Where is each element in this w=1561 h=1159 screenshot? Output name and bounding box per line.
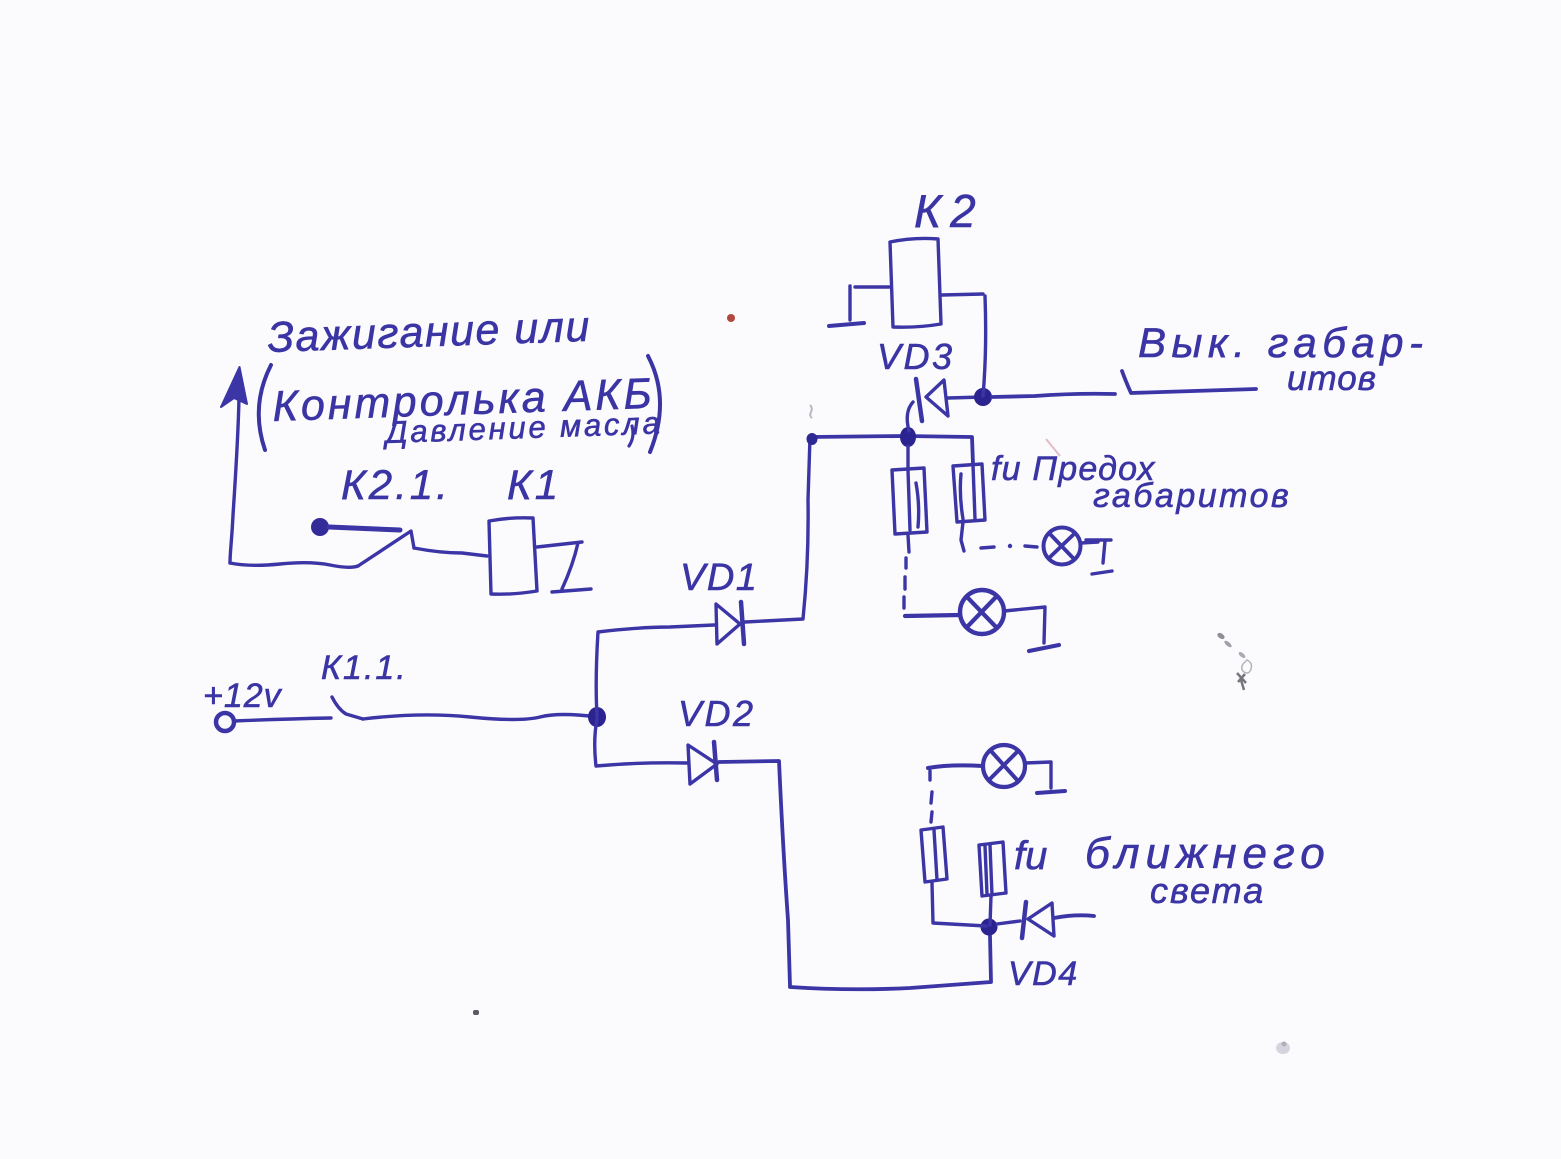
fuse FU3 (blizhnego sveta, right) (979, 842, 1006, 896)
diode VD4 cathode bar (1022, 902, 1026, 938)
wire: lamp HL1 to ground (1081, 542, 1098, 543)
K2 left stub vertical (848, 286, 851, 320)
dash-dot wire to lamp HL1 (981, 546, 1037, 548)
relay coil K2 (890, 238, 941, 327)
fuse FU2 (blizhnego sveta, left) (921, 827, 947, 882)
lamp HL3 circle (983, 745, 1025, 787)
big opening parenthesis (259, 365, 271, 450)
K2 right stub (942, 294, 983, 295)
wire: dashes to lamp HL3 (928, 765, 983, 768)
wire: node B right to VD4 (997, 921, 1020, 924)
switch K2.1 fixed stub (329, 527, 400, 530)
wire: bottom horizontal from arrow corner to switch K2.1 (230, 563, 358, 568)
wire: VD3 to node D (948, 397, 983, 398)
wire: arrow to ignition, vertical shaft with arrowhead (230, 371, 239, 563)
big closing parenthesis (648, 356, 660, 452)
wire: lamp HL2 to ground (1004, 607, 1045, 643)
fuse FU4 inner stroke (960, 465, 975, 519)
wire: node C down into fuse FU1 (906, 446, 909, 468)
wire: +12v to switch K1.1 (234, 718, 331, 721)
gabarity rail (lower) (810, 436, 973, 464)
comma after АКБ (629, 426, 633, 446)
faint gray squiggle near rail (810, 405, 812, 418)
diode VD4 triangle (1028, 903, 1054, 936)
lamp HL2 cross (968, 598, 996, 627)
node B junction dot (981, 919, 998, 936)
diode VD2 triangle (688, 745, 717, 784)
node D junction dot (974, 388, 992, 406)
fuse FU2 inner stroke (934, 830, 937, 880)
+12v terminal circle (216, 713, 234, 731)
red speck (727, 314, 735, 322)
wire: switch K2.1 to relay coil R1 (414, 548, 487, 556)
svg-text:габаритов: габаритов (1093, 477, 1291, 515)
wire below FU4 (961, 522, 964, 551)
wire: lamp HL3 to ground (1025, 762, 1051, 788)
ground bar of HL3 (1037, 791, 1065, 793)
svg-text:К2.1.: К2.1. (341, 461, 451, 508)
bracket lead to gabarity switch (1122, 371, 1256, 393)
node C junction blob (900, 427, 916, 447)
ground of HL1 (1086, 540, 1112, 574)
wire below FU1 (908, 535, 909, 552)
svg-text:VD4: VD4 (1008, 955, 1079, 993)
svg-text:итов: итов (1287, 359, 1377, 398)
diode VD3 triangle (926, 380, 948, 416)
K2 left stub wire (855, 285, 889, 288)
diode VD1 triangle (716, 604, 740, 644)
wire: node D up to relay K2 (983, 296, 986, 396)
wire: VD4 right lead (1054, 915, 1094, 918)
wire: VD2 right then down to bottom rail (719, 761, 790, 986)
wire: node A down to VD2 (595, 719, 688, 766)
svg-text:fu: fu (1014, 834, 1047, 878)
svg-text:VD1: VD1 (680, 557, 758, 599)
fuse FU4 (gabarity, right) (953, 464, 985, 522)
svg-text:К2: К2 (914, 185, 985, 237)
dashed wire below FU1 (904, 558, 906, 608)
diode VD3 cathode bar (916, 379, 922, 421)
K2 left chassis bar (829, 323, 864, 326)
dashed wire above FU2 (930, 771, 932, 822)
wire: VD1 cathode right then up to gabarity rail (745, 437, 810, 622)
diode VD2 cathode bar (714, 742, 717, 780)
svg-text:+12v: +12v (203, 677, 283, 715)
wire: node C up to VD3 anode (907, 402, 913, 431)
wire: dashes to lamp HL2 (905, 615, 960, 616)
lamp HL2 circle (960, 590, 1004, 634)
svg-text:К1: К1 (507, 461, 561, 508)
svg-text:VD2: VD2 (678, 693, 756, 734)
switch K2.1 contact dot (311, 518, 329, 536)
lamp HL1 circle (1044, 528, 1081, 565)
node A junction dot (588, 707, 606, 727)
svg-text:VD3: VD3 (877, 336, 955, 377)
corner blob on gabarity rail (807, 433, 818, 445)
wire: node A up to VD1 (596, 625, 714, 716)
ground bar of HL2 (1029, 645, 1059, 651)
lamp HL1 cross (1049, 534, 1074, 559)
fuse FU1 (gabarity, left) (892, 468, 927, 534)
relay coil R1 (489, 518, 537, 594)
wire: node B left to fuse FU2 bottom (932, 883, 986, 926)
fuse FU1 inner strokes (908, 470, 919, 530)
gray smudges (1216, 632, 1225, 641)
fuse FU3 inner strokes (985, 845, 992, 895)
wire: bottom rail to node B riser (790, 936, 991, 989)
wire: node B up to fuse FU3 bottom (990, 896, 991, 925)
lamp HL3 cross (990, 751, 1018, 781)
svg-text:света: света (1150, 870, 1265, 911)
svg-text:К1.1.: К1.1. (321, 649, 408, 687)
svg-text:Вык. габар-: Вык. габар- (1138, 319, 1429, 366)
diode VD1 cathode bar (741, 602, 744, 644)
switch K1.1 blade (332, 697, 363, 719)
R1 right contact symbol (537, 542, 591, 592)
switch K2.1 blade (358, 531, 414, 566)
wire: node D right to gabarity switch (992, 394, 1115, 397)
dark speck bottom left (473, 1010, 479, 1015)
wire: switch K1.1 to node A (363, 715, 597, 720)
